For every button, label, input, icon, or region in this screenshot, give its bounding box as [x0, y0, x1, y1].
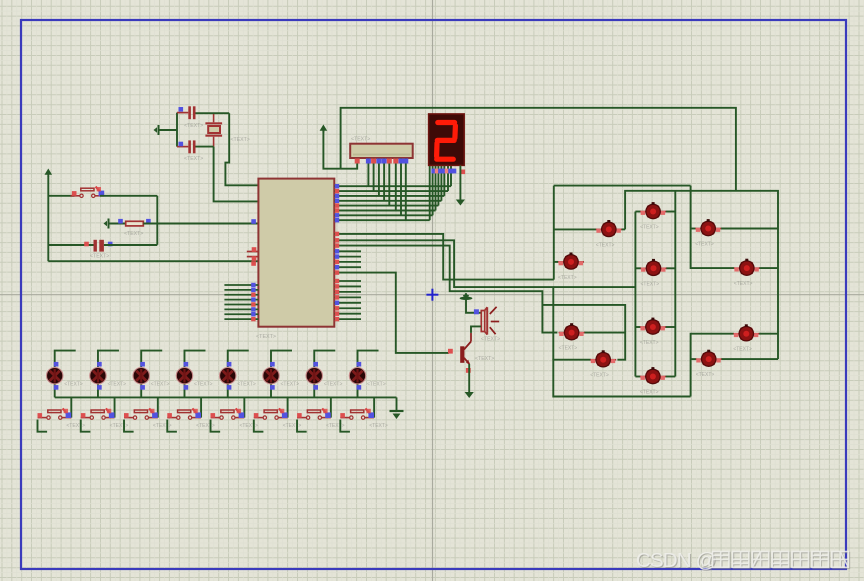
pin P3.4 stub [334, 302, 361, 304]
svg-text:<TEXT>: <TEXT> [124, 231, 143, 237]
pin P1.0 stub [224, 284, 258, 286]
pin P1.3 stub [224, 299, 258, 301]
pin marker S5 [211, 413, 216, 418]
wire K1 right stub [621, 228, 625, 230]
pin marker P0.5 [335, 208, 339, 212]
wire K12 left stub [635, 376, 640, 378]
pin marker DS1 seg 3 [442, 169, 447, 174]
pin markers D5 [227, 362, 232, 367]
svg-text:<TEXT>: <TEXT> [90, 254, 109, 260]
wire K3 left stub [691, 228, 696, 230]
wire button S5 to bus [243, 397, 245, 417]
pin P3.1 stub [334, 285, 361, 287]
wire W1 top long rail [341, 108, 736, 191]
wire power to speaker [466, 300, 481, 313]
wire S1 left hook [38, 420, 48, 432]
ground (RST resistor) [104, 219, 109, 229]
watermark glyph 4 [793, 553, 809, 569]
pin marker P0.0 [335, 184, 339, 188]
wire LED D4 anode stub [184, 351, 205, 368]
wire P2.7 to transistor base [334, 273, 449, 353]
power symbol (speaker) [460, 293, 473, 300]
svg-text:<TEXT>: <TEXT> [184, 156, 203, 162]
wire button S6 to bus [287, 397, 289, 417]
pin markers D4 [184, 362, 189, 367]
svg-text:<TEXT>: <TEXT> [107, 382, 126, 388]
wire RP1 pin5 drop [383, 158, 385, 201]
wire K11 right stub [721, 358, 778, 360]
wire K9 right stub [759, 333, 778, 335]
wire LED D3 cathode [140, 383, 142, 397]
pin P2.4 stub [334, 256, 361, 258]
pin marker P0.1 [335, 189, 339, 193]
wire K4 left stub [554, 261, 558, 263]
keypad button K1 [596, 220, 622, 237]
svg-text:<TEXT>: <TEXT> [256, 334, 276, 340]
push button RESET [71, 187, 105, 198]
pin markers C2 [179, 142, 184, 147]
wire P0.6 row [334, 214, 432, 216]
wire LED D2 cathode [97, 383, 99, 397]
cursor mark [426, 289, 438, 301]
resistor pack RP1 body [350, 144, 413, 158]
ground (crystal) [154, 125, 159, 135]
wire XTAL top [196, 112, 230, 114]
wire XTAL2 path [214, 147, 259, 202]
pin P3.5 stub [334, 307, 361, 309]
ground (display) [456, 200, 465, 206]
ground (Q1) [465, 392, 474, 398]
wire P0.4 row [334, 205, 438, 207]
pin P2.5 stub [334, 261, 361, 263]
crystal X1 [205, 113, 222, 146]
wire P2.1 to keypad row2 [334, 240, 635, 287]
svg-text:<TEXT>: <TEXT> [281, 382, 300, 388]
pin markers D3 [140, 362, 145, 367]
svg-text:<TEXT>: <TEXT> [640, 390, 659, 396]
svg-text:<TEXT>: <TEXT> [596, 242, 615, 248]
wire K8 right stub [665, 326, 675, 328]
keypad button K2 [640, 202, 666, 219]
pin PSEN stub [247, 251, 259, 253]
wire P0.5 row [334, 210, 435, 212]
pin P1.7 stub [224, 318, 258, 320]
transistor Q1 [460, 342, 471, 365]
svg-text:<TEXT>: <TEXT> [369, 423, 388, 429]
wire button S4 to bus [200, 397, 202, 417]
wire keypad right riser [674, 191, 676, 377]
pin marker P0.7 [335, 218, 339, 222]
watermark glyph 1 [734, 553, 750, 569]
pin markers C1 [179, 107, 184, 112]
wire display segment riser 6 [432, 166, 434, 215]
keypad button K11 [696, 350, 722, 367]
svg-text:<TEXT>: <TEXT> [239, 423, 258, 429]
pin marker DS1 seg 4 [445, 169, 450, 174]
wire display segment riser 5 [435, 166, 437, 211]
pin P3.7 stub [334, 318, 361, 320]
push button S6 [254, 408, 288, 419]
power symbol VCC (reset rail) [45, 169, 53, 177]
wire P0.0 row [334, 185, 451, 187]
wire left rail [47, 176, 49, 261]
wire LED D6 cathode [270, 383, 272, 397]
svg-text:<TEXT>: <TEXT> [151, 382, 170, 388]
push button S2 [81, 408, 115, 419]
wire RP1 pin2 drop [367, 158, 369, 186]
DS1 common pin marker [461, 170, 466, 175]
LED D7 [306, 368, 322, 384]
wire P2.0 to keypad row1 [334, 234, 554, 280]
wire K10 left + bottom bus [553, 360, 690, 397]
wire RP1 pin9 drop [405, 158, 407, 220]
wire LED D6 anode stub [271, 351, 292, 368]
wire keypad H1 top [554, 185, 691, 187]
pin marker P2.1 [335, 238, 339, 242]
LED D3 [133, 368, 149, 384]
svg-text:<TEXT>: <TEXT> [324, 382, 343, 388]
wire RP1 pin3 drop [373, 158, 375, 191]
wire P2.2 to keypad row3 [334, 246, 557, 333]
wire LED D5 anode stub [228, 351, 249, 368]
pin P1.6 stub [224, 313, 258, 315]
wire keypad Va vertical [553, 186, 555, 280]
svg-text:<TEXT>: <TEXT> [66, 423, 85, 429]
wire button S3 to bus [157, 397, 159, 417]
origin axis lines [432, 0, 434, 581]
capacitor C2 [177, 140, 196, 153]
wire gnd to caps [159, 129, 177, 131]
svg-text:<TEXT>: <TEXT> [481, 337, 500, 343]
wire button S1 to bus [70, 397, 72, 417]
wire K2 left stub [635, 211, 640, 213]
pin marker DS1 seg 1 [435, 169, 440, 174]
keypad button K7 [559, 323, 585, 340]
wire K7 right stub [584, 332, 625, 334]
wire keypad left riser [634, 212, 636, 377]
svg-text:<TEXT>: <TEXT> [695, 242, 714, 248]
pin marker P0.2 [335, 194, 339, 198]
wire K3 right stub [721, 228, 778, 230]
pin marker P0.6 [335, 213, 339, 217]
watermark glyph 6 [833, 553, 849, 569]
op: main MCU U1 body [258, 179, 334, 327]
speaker LS1 [481, 307, 499, 335]
wire display segment riser 2 [443, 166, 445, 196]
pin markers D1 [54, 362, 59, 367]
push button S1 [38, 408, 72, 419]
pin marker Q1 emitter [466, 368, 471, 373]
wire K2 right stub [666, 211, 676, 213]
wire DS1 common to ground [459, 165, 461, 199]
svg-text:<TEXT>: <TEXT> [475, 356, 494, 362]
wire P0.3 row [334, 200, 441, 202]
pin P3.0 stub [334, 280, 361, 282]
wire P0.2 row [334, 195, 444, 197]
push button S4 [167, 408, 201, 419]
wire keypad branch [542, 305, 625, 360]
keypad button K8 [640, 318, 666, 335]
wire button S2 to bus [114, 397, 116, 417]
wire P0.7 row [334, 219, 429, 221]
svg-text:<TEXT>: <TEXT> [196, 423, 215, 429]
power symbol VCC (RP1) [320, 125, 328, 133]
wire caps left vertical [176, 113, 178, 147]
keypad button K10 [590, 350, 616, 367]
pin P3.3 stub [334, 296, 361, 298]
wire keypad V5 [691, 334, 734, 397]
svg-text:<TEXT>: <TEXT> [351, 137, 370, 143]
svg-text:<TEXT>: <TEXT> [367, 382, 386, 388]
svg-text:<TEXT>: <TEXT> [641, 281, 660, 287]
capacitor C3 (electrolytic) [94, 240, 104, 252]
pin P3.2 stub [334, 291, 361, 293]
pin marker S8 [340, 413, 345, 418]
capacitor C1 [177, 106, 196, 119]
pin marker EA [251, 261, 256, 266]
wire EA rail to MCU [48, 260, 258, 262]
svg-text:<TEXT>: <TEXT> [153, 423, 172, 429]
wire S8 left hook [340, 420, 350, 432]
wire S6 left hook [254, 420, 264, 432]
pin P1.1 stub [224, 289, 258, 291]
LED D8 [349, 368, 365, 384]
wire bus to ground [396, 397, 398, 410]
pin marker P0.4 [335, 203, 339, 207]
wire S3 left hook [124, 420, 134, 432]
watermark CSDN [636, 549, 717, 573]
wire Vc upper [552, 287, 554, 360]
push button S7 [297, 408, 331, 419]
pin marker [72, 191, 77, 196]
wire LED D2 anode stub [98, 351, 119, 368]
pin marker RST [251, 219, 256, 224]
svg-text:CSDN @: CSDN @ [636, 549, 716, 572]
wire K12 right stub [665, 376, 675, 378]
pin marker P0.3 [335, 199, 339, 203]
LED D5 [220, 368, 236, 384]
pin marker P2.7 [335, 270, 339, 274]
pin marker S1 [38, 413, 43, 418]
svg-text:<TEXT>: <TEXT> [733, 347, 752, 353]
pin marker S3 [124, 413, 129, 418]
wire cap row left [48, 244, 93, 246]
wire LED D4 cathode [183, 383, 185, 397]
wire LED D1 anode stub [55, 351, 76, 368]
svg-text:<TEXT>: <TEXT> [283, 423, 302, 429]
wire K5 left stub [635, 267, 641, 269]
wire display segment riser 4 [437, 166, 439, 206]
svg-text:<TEXT>: <TEXT> [559, 346, 578, 352]
wire VCC to RP common [323, 130, 357, 169]
keypad button K12 [640, 367, 666, 384]
wire RP1 pin4 drop [378, 158, 380, 196]
wire XTAL1 path [225, 113, 258, 185]
pin P1.4 stub [224, 303, 258, 305]
pin marker S2 [81, 413, 86, 418]
wire button S7 to bus [330, 397, 332, 417]
svg-text:<TEXT>: <TEXT> [734, 281, 753, 287]
wire LED D1 cathode [54, 383, 56, 397]
svg-text:<TEXT>: <TEXT> [558, 275, 577, 281]
keypad button K6 [734, 259, 760, 276]
wire Q1 emitter to ground [468, 364, 470, 392]
svg-text:<TEXT>: <TEXT> [696, 372, 715, 378]
wire LED D8 anode stub [358, 351, 379, 368]
pin P1.5 stub [224, 308, 258, 310]
wire right vertical of reset loop [156, 196, 158, 245]
pin P1.2 stub [224, 294, 258, 296]
svg-text:<TEXT>: <TEXT> [184, 123, 203, 129]
wire display segment riser 7 [429, 166, 431, 220]
wire LED D7 cathode [313, 383, 315, 397]
RP1 pin 1 marker [355, 159, 360, 164]
wire S4 left hook [167, 420, 177, 432]
svg-text:<TEXT>: <TEXT> [640, 225, 659, 231]
wire P0.1 row [334, 190, 448, 192]
LED D1 [47, 368, 63, 384]
wire K5 right stub [666, 267, 675, 269]
wire cap to right vertical [104, 244, 157, 246]
wire K1 left stub [554, 228, 597, 230]
wire gnd to resistor [109, 223, 126, 225]
wire S7 left hook [297, 420, 307, 432]
wire display segment riser 0 [450, 166, 452, 186]
wire button to right [100, 195, 157, 197]
wire display segment riser 1 [447, 166, 449, 191]
watermark glyph 2 [753, 553, 769, 569]
keypad button K4 [558, 253, 584, 270]
pin marker P2.2 [335, 243, 339, 247]
pin markers C3 [84, 242, 89, 247]
wire RP1 pin8 drop [400, 158, 402, 215]
wire S5 left hook [211, 420, 221, 432]
pin marker S6 [254, 413, 259, 418]
svg-text:<TEXT>: <TEXT> [231, 137, 250, 143]
pin ALE stub [247, 256, 259, 258]
ground (bus) [390, 411, 404, 419]
wire K11 left stub [691, 358, 697, 360]
svg-text:<TEXT>: <TEXT> [326, 423, 345, 429]
wire S2 left hook [81, 420, 91, 432]
pin marker DS1 seg 5 [448, 169, 453, 174]
wire to reset button [48, 195, 74, 197]
wire XTAL bottom [196, 146, 214, 148]
pin markers D6 [270, 362, 275, 367]
wire RP1 pin6 drop [388, 158, 390, 205]
svg-text:<TEXT>: <TEXT> [590, 373, 609, 379]
LED D4 [176, 368, 192, 384]
pin marker S4 [167, 413, 172, 418]
wire keypad H2 [625, 191, 778, 359]
pin marker S7 [297, 413, 302, 418]
pin markers R1 [118, 219, 123, 224]
pin marker P2.0 [335, 232, 339, 236]
svg-text:<TEXT>: <TEXT> [110, 423, 129, 429]
wire LED D5 cathode [227, 383, 229, 397]
pin P2.6 stub [334, 266, 361, 268]
pin markers D2 [97, 362, 102, 367]
push button S5 [211, 408, 245, 419]
pin P2.3 stub [334, 250, 361, 252]
wire RST to MCU [143, 223, 258, 225]
push button S3 [124, 408, 158, 419]
7seg display DS1 body [429, 114, 465, 165]
wire RP1 pin7 drop [395, 158, 397, 210]
wire Q1 collector [470, 333, 472, 342]
svg-text:<TEXT>: <TEXT> [237, 382, 256, 388]
wire K8 left stub [635, 326, 640, 328]
wire K6 right stub [759, 267, 778, 269]
pin marker DS1 seg 6 [452, 169, 457, 174]
wire button S8 to bus [373, 397, 375, 417]
push button S8 [340, 408, 374, 419]
resistor R1 [126, 221, 144, 226]
wire display segment riser 3 [440, 166, 442, 201]
wire speaker bottom to collector [471, 326, 481, 333]
pin P3.6 stub [334, 313, 361, 315]
LED D2 [90, 368, 106, 384]
LED D6 [263, 368, 279, 384]
svg-text:<TEXT>: <TEXT> [640, 340, 659, 346]
wire LED D3 anode stub [141, 351, 162, 368]
wire LED D8 cathode [357, 383, 359, 397]
pin markers D7 [313, 362, 318, 367]
pin marker Q1 base [448, 349, 453, 354]
wire LED D7 anode stub [314, 351, 335, 368]
keypad button K3 [695, 219, 721, 236]
pin marker DS1 seg 2 [438, 169, 443, 174]
wire keypad V4 [691, 186, 735, 269]
pin marker DS1 seg 0 [431, 169, 436, 174]
svg-text:<TEXT>: <TEXT> [194, 382, 213, 388]
pin markers D8 [357, 362, 362, 367]
keypad button K9 [733, 324, 759, 341]
7seg digit 2 segments [437, 123, 456, 160]
svg-text:<TEXT>: <TEXT> [64, 382, 83, 388]
watermark glyph 0 [714, 553, 730, 569]
wire LED/button common bus [55, 396, 397, 398]
watermark glyph 3 [773, 553, 789, 569]
pin marker speaker top [474, 309, 479, 314]
keypad button K5 [641, 259, 667, 276]
watermark glyph 5 [813, 553, 829, 569]
